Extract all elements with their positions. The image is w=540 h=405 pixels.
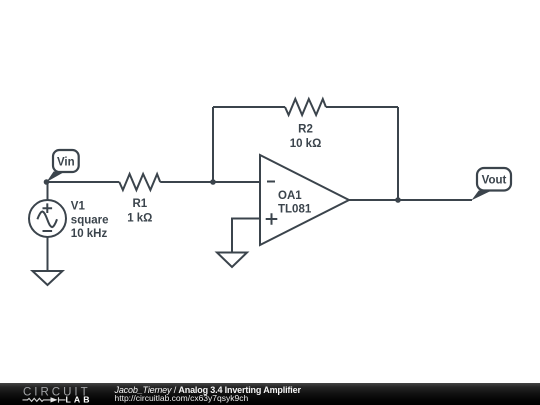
node output dot [395,197,401,203]
ground GND1 [33,271,63,285]
svg-text:V1: V1 [71,201,86,213]
svg-text:Vout: Vout [482,174,507,186]
flag Vout [472,168,512,200]
wire non-inverting input [232,219,260,253]
wire feedback right vertical [397,107,399,200]
wire main input y=182 [47,181,261,183]
svg-text:Vin: Vin [57,157,75,169]
resistor R1 [119,174,160,225]
wire feedback top right [326,106,398,108]
label V1 value [71,201,109,241]
footer url text [115,394,249,403]
flag Vin [47,150,79,182]
wire V1 bottom [47,237,49,271]
node Vin dot [44,179,50,185]
voltage source V1 [29,200,66,237]
svg-text:square: square [71,215,109,227]
wire V1 top [47,182,49,200]
svg-text:LAB: LAB [66,394,93,404]
op-amp OA1 [260,155,349,245]
wire feedback left vertical [212,107,214,182]
svg-text:10 kHz: 10 kHz [71,228,108,240]
wire feedback top left [213,106,285,108]
svg-text:OA1: OA1 [278,190,302,202]
ground GND2 [217,253,247,268]
svg-text:R2: R2 [298,123,313,135]
footer bar [0,383,540,405]
svg-text:R1: R1 [132,198,147,210]
svg-text:10 kΩ: 10 kΩ [290,138,322,150]
resistor R2 [285,99,326,150]
node junction at inverting input [210,179,216,185]
footer title text [115,386,301,395]
wire output [349,199,472,201]
svg-text:TL081: TL081 [278,203,312,215]
logo CircuitLab [0,383,110,405]
svg-text:1 kΩ: 1 kΩ [127,213,152,225]
